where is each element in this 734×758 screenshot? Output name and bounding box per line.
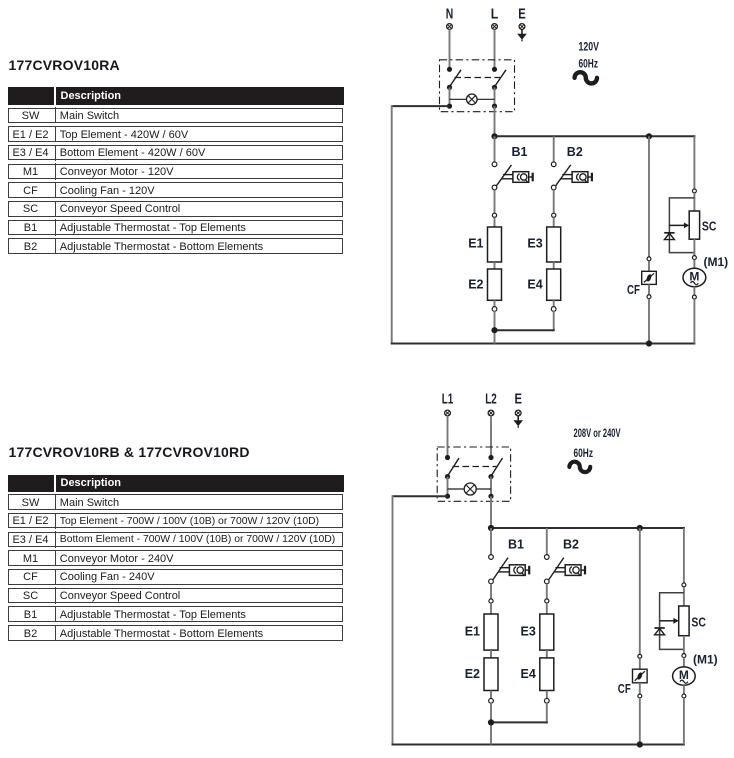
wire node to SC' bbox=[683, 587, 685, 606]
node below CF' bbox=[638, 694, 642, 698]
wire B2' to E3' bbox=[546, 584, 548, 599]
svg-text:N: N bbox=[446, 6, 454, 22]
node below E4 bbox=[551, 307, 556, 312]
left return rail wire bbox=[391, 105, 393, 343]
wire E1' to E2' bbox=[490, 650, 492, 658]
wire E1 to E2 bbox=[494, 262, 496, 269]
node above E3 bbox=[552, 213, 556, 217]
distribution rail wire bbox=[495, 135, 696, 137]
terminal E bbox=[514, 392, 522, 416]
node above CF' bbox=[638, 654, 642, 658]
wire rail to B1 bbox=[494, 136, 496, 162]
wire switch to left rail bbox=[392, 105, 450, 107]
wire B1 to E1 bbox=[494, 190, 496, 214]
wire CF' to bottom rail bbox=[639, 698, 641, 745]
SC bypass wire loop bbox=[669, 198, 694, 253]
distribution rail wire bbox=[491, 527, 685, 529]
switch SW' pole 2 bbox=[488, 455, 502, 499]
wire N terminal to switch bbox=[449, 29, 451, 69]
wire node to SC bbox=[693, 193, 695, 211]
svg-text:(M1): (M1) bbox=[693, 653, 718, 667]
junction at CF' tap bbox=[637, 525, 643, 531]
svg-text:E2: E2 bbox=[465, 667, 480, 681]
svg-text:E3: E3 bbox=[527, 237, 542, 251]
speed control SC bbox=[689, 211, 716, 239]
svg-text:E: E bbox=[518, 6, 526, 22]
heating element E3' bbox=[521, 614, 554, 650]
wire SC to motor bbox=[693, 239, 695, 255]
svg-text:CF: CF bbox=[618, 682, 631, 696]
supply voltage label bbox=[574, 428, 621, 460]
wire node to E1' bbox=[490, 603, 492, 614]
heating element E4 bbox=[527, 269, 560, 300]
svg-text:E4: E4 bbox=[521, 667, 536, 681]
svg-text:M: M bbox=[689, 269, 699, 283]
SC wiper arrow bbox=[669, 223, 689, 229]
wire rail corner down to SC bbox=[693, 136, 695, 189]
svg-text:L: L bbox=[491, 6, 499, 22]
heating element E1' bbox=[465, 614, 498, 650]
wire rail to B1' bbox=[490, 528, 492, 555]
node below E4' bbox=[544, 698, 549, 703]
node below E2' bbox=[489, 698, 494, 703]
wire B2 to E3 bbox=[553, 190, 555, 214]
junction at CF tap bbox=[646, 133, 652, 139]
wire rail to CF' bbox=[639, 528, 641, 654]
cooling fan CF' bbox=[618, 658, 647, 696]
main switch SW' enclosure bbox=[437, 447, 510, 501]
svg-text:L1: L1 bbox=[442, 392, 454, 408]
node below CF bbox=[647, 295, 651, 299]
bottom rail wire bbox=[392, 744, 685, 746]
pilot lamp (in SW) bbox=[467, 94, 478, 105]
junction of element branches bbox=[488, 719, 494, 725]
wire L2 terminal to switch bbox=[490, 416, 492, 458]
svg-text:SC: SC bbox=[702, 220, 717, 234]
node below E2 bbox=[492, 307, 497, 312]
diode D bbox=[664, 233, 674, 240]
node above E3' bbox=[545, 599, 549, 603]
left return rail wire bbox=[392, 495, 394, 744]
wire L to distribution node bbox=[490, 496, 492, 528]
SC' wiper arrow bbox=[660, 618, 679, 624]
wire rail to B2 bbox=[553, 136, 555, 162]
thermostat B2 bbox=[551, 145, 592, 190]
svg-text:E2: E2 bbox=[468, 277, 483, 291]
junction at B1 tap bbox=[491, 133, 497, 139]
svg-text:208V or 240V: 208V or 240V bbox=[574, 428, 621, 440]
supply voltage label bbox=[579, 42, 600, 71]
heating element E1 bbox=[468, 227, 501, 262]
svg-text:120V: 120V bbox=[579, 42, 600, 54]
AC sine symbol bbox=[575, 72, 597, 83]
conveyor motor M1 bbox=[683, 255, 728, 287]
wire node to E1 bbox=[494, 217, 496, 227]
cooling fan CF bbox=[627, 261, 656, 297]
wire rail to CF bbox=[648, 136, 650, 256]
wire motor branch to bottom rail bbox=[683, 698, 685, 745]
wire node to E3 bbox=[553, 217, 555, 227]
wire E2' node to junction bbox=[490, 703, 492, 745]
wire rail to B2' bbox=[546, 528, 548, 555]
svg-text:B2: B2 bbox=[567, 145, 583, 159]
terminal E bbox=[518, 6, 526, 29]
wire motor branch to bottom rail bbox=[693, 299, 695, 343]
junction at B1' tap bbox=[488, 525, 494, 531]
wire L to distribution node bbox=[494, 106, 496, 136]
terminal L1 bbox=[442, 392, 454, 416]
svg-text:B1: B1 bbox=[508, 538, 524, 552]
node above SC bbox=[692, 189, 696, 193]
wire E3' to E4' bbox=[546, 650, 548, 658]
switch SW' pole 1 bbox=[445, 455, 459, 499]
speed control SC' bbox=[679, 606, 706, 636]
wire L1 terminal to switch bbox=[447, 416, 449, 458]
wire switch to left rail bbox=[393, 495, 448, 497]
bottom rail wire bbox=[391, 343, 696, 345]
svg-text:60Hz: 60Hz bbox=[574, 448, 594, 460]
svg-text:E1: E1 bbox=[465, 624, 480, 638]
node above E1 bbox=[492, 213, 496, 217]
switch SW pole 2 bbox=[492, 67, 506, 109]
wire to pilot lamp bbox=[450, 98, 495, 100]
wire E4 node to junction bbox=[495, 311, 555, 331]
wire E2 node to junction bbox=[494, 311, 496, 344]
node above motor M1 bbox=[692, 256, 696, 260]
node above motor M1' bbox=[682, 654, 686, 658]
wire node to E3' bbox=[546, 603, 548, 614]
wire E2' to node bbox=[490, 691, 492, 699]
switch SW mechanical link bbox=[455, 77, 501, 79]
heating element E2' bbox=[465, 658, 498, 691]
thermostat B1' bbox=[489, 538, 530, 584]
wire to pilot lamp bbox=[448, 488, 492, 490]
node above CF bbox=[647, 257, 651, 261]
ground (earth arrow) bbox=[513, 416, 523, 428]
heating element E4' bbox=[521, 658, 554, 691]
svg-text:60Hz: 60Hz bbox=[579, 58, 599, 70]
wire SC' to motor bbox=[683, 636, 685, 654]
wire E4 to node bbox=[553, 300, 555, 307]
diode D' bbox=[654, 628, 664, 635]
wire E3 to E4 bbox=[553, 262, 555, 269]
node below motor M1' bbox=[682, 694, 686, 698]
svg-text:B2: B2 bbox=[563, 538, 579, 552]
wire CF to bottom rail bbox=[648, 299, 650, 344]
switch SW pole 1 bbox=[447, 67, 461, 109]
svg-text:B1: B1 bbox=[512, 145, 528, 159]
heating element E2 bbox=[468, 269, 501, 300]
heating element E3 bbox=[527, 227, 560, 262]
svg-text:SC: SC bbox=[691, 615, 706, 629]
svg-text:CF: CF bbox=[627, 283, 640, 297]
conveyor motor M1' bbox=[673, 653, 718, 686]
svg-text:(M1): (M1) bbox=[704, 255, 729, 269]
wire L terminal to switch bbox=[494, 29, 496, 69]
wire B1' to E1' bbox=[490, 584, 492, 599]
ground (earth arrow) bbox=[517, 30, 527, 42]
pilot lamp (in SW') bbox=[464, 483, 476, 495]
svg-text:M: M bbox=[679, 668, 689, 682]
SC' bypass wire loop bbox=[660, 593, 684, 650]
wire E4' node to junction bbox=[491, 703, 548, 724]
svg-text:L2: L2 bbox=[485, 392, 497, 408]
thermostat B1 bbox=[492, 145, 533, 190]
thermostat B2' bbox=[544, 538, 585, 584]
junction CF' bottom rail bbox=[637, 741, 643, 747]
main switch SW enclosure bbox=[440, 60, 515, 112]
wire motor to node bbox=[693, 287, 695, 296]
terminal L2 bbox=[485, 392, 497, 416]
wire E4' to node bbox=[546, 691, 548, 699]
node above SC' bbox=[682, 583, 686, 587]
switch SW' mechanical link bbox=[453, 466, 497, 468]
terminal N bbox=[446, 6, 454, 29]
svg-text:E4: E4 bbox=[527, 277, 542, 291]
junction of element branches bbox=[491, 327, 497, 333]
AC sine symbol bbox=[569, 462, 590, 472]
node below motor M1 bbox=[692, 295, 696, 299]
wire E2 to node bbox=[494, 300, 496, 307]
wire motor to node bbox=[683, 685, 685, 694]
junction CF bottom rail bbox=[646, 340, 652, 346]
terminal L bbox=[491, 6, 499, 29]
svg-text:E3: E3 bbox=[521, 624, 536, 638]
wire rail corner down to SC' bbox=[683, 528, 685, 583]
svg-text:E1: E1 bbox=[468, 237, 483, 251]
node above E1' bbox=[489, 599, 493, 603]
svg-text:E: E bbox=[514, 392, 522, 408]
